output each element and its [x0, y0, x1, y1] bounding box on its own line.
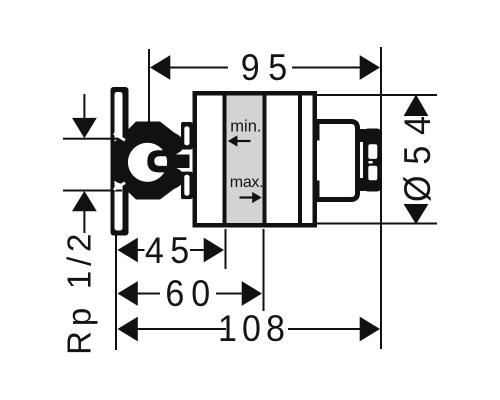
svg-text:60: 60	[165, 273, 217, 315]
svg-text:min.: min.	[230, 118, 261, 136]
svg-text:Ø 5 4: Ø 5 4	[397, 115, 439, 202]
svg-text:45: 45	[145, 229, 196, 271]
svg-text:95: 95	[241, 47, 296, 89]
svg-text:108: 108	[218, 308, 290, 350]
svg-text:max.: max.	[230, 174, 263, 191]
svg-text:Rp 1/2: Rp 1/2	[61, 229, 98, 355]
